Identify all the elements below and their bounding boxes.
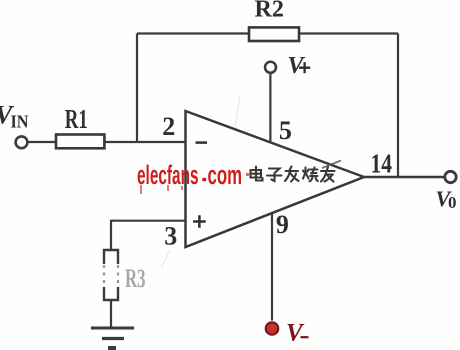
svg-text:R3: R3: [125, 264, 146, 293]
svg-text:3: 3: [164, 222, 177, 251]
svg-text:com: com: [208, 160, 243, 190]
svg-text:IN: IN: [11, 111, 29, 131]
svg-text:V: V: [288, 53, 306, 79]
svg-text:V: V: [286, 320, 305, 347]
svg-text:R2: R2: [255, 0, 285, 23]
svg-text:14: 14: [371, 148, 393, 179]
svg-text:0: 0: [448, 193, 457, 212]
svg-text:2: 2: [162, 112, 175, 141]
svg-text:5: 5: [279, 116, 292, 145]
svg-text:R1: R1: [65, 104, 88, 134]
svg-text:9: 9: [276, 210, 289, 239]
